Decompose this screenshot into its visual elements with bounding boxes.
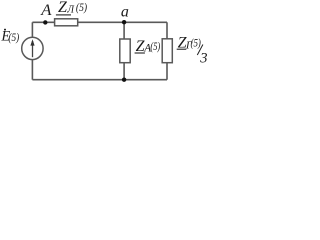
svg-text:(5): (5) [76,0,87,14]
wire: top horizontal bus A to right corner [32,21,167,23]
EMF source E(5): arrow inside [30,39,34,57]
svg-text:(5): (5) [150,39,160,53]
svg-text:a: a [121,4,129,21]
wire: middle branch top vertical [123,22,125,39]
label: fraction slash of /3 [197,45,203,56]
svg-text:(5): (5) [8,32,19,44]
svg-text:(5): (5) [191,36,201,50]
svg-text:Л: Л [66,5,75,16]
junction dot (bottom, middle branch) [122,78,126,82]
node A junction dot [43,20,47,24]
impedance box Z_L(5) [55,19,78,26]
wire: right branch vertical (corner to Z_G box top) [166,22,168,39]
underline of Z in Z_L(5) [56,14,71,16]
label: dot above E (phasor) [4,29,6,31]
wire: left branch bottom vertical [31,59,33,79]
svg-text:A: A [40,2,51,19]
wire: right branch bottom vertical [166,63,168,80]
wire: middle branch bottom vertical [123,63,125,80]
impedance box Z_G(5)/3 [162,39,172,63]
EMF source E(5): circle [22,37,43,59]
underline of Z in Z_G(5)/3 [177,48,187,50]
wire: left branch top vertical [31,22,33,37]
svg-text:3: 3 [199,51,207,67]
underline of Z in Z_A(5) [135,52,145,54]
impedance box Z_A(5) [120,39,130,63]
wire: bottom horizontal bus [32,79,167,81]
node a junction dot (top) [122,20,126,24]
